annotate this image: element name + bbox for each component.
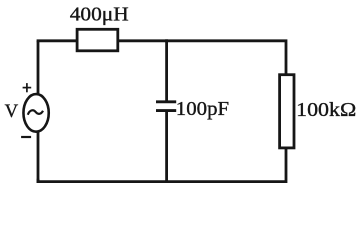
wire bottom-left segment: [38, 180, 167, 181]
wire middle vertical upper: [165, 41, 168, 102]
wire left vertical lower: [37, 132, 40, 181]
svg-text:100kΩ: 100kΩ: [296, 99, 356, 121]
wire top-left segment: [38, 39, 76, 42]
svg-text:V: V: [5, 101, 19, 122]
resistor R1: [280, 75, 294, 148]
svg-text:100pF: 100pF: [176, 99, 229, 120]
svg-text:400μH: 400μH: [70, 4, 129, 25]
wire left vertical upper: [37, 42, 40, 93]
capacitor C1: [156, 102, 176, 111]
wire top-middle segment: [119, 39, 167, 42]
wire middle vertical lower: [165, 111, 168, 182]
plus sign: [23, 83, 32, 92]
wire bottom-right segment: [167, 149, 286, 182]
inductor L1: [77, 29, 118, 51]
wire top-right segment: [167, 41, 286, 74]
source V1: [23, 94, 48, 132]
minus sign: [21, 136, 31, 138]
